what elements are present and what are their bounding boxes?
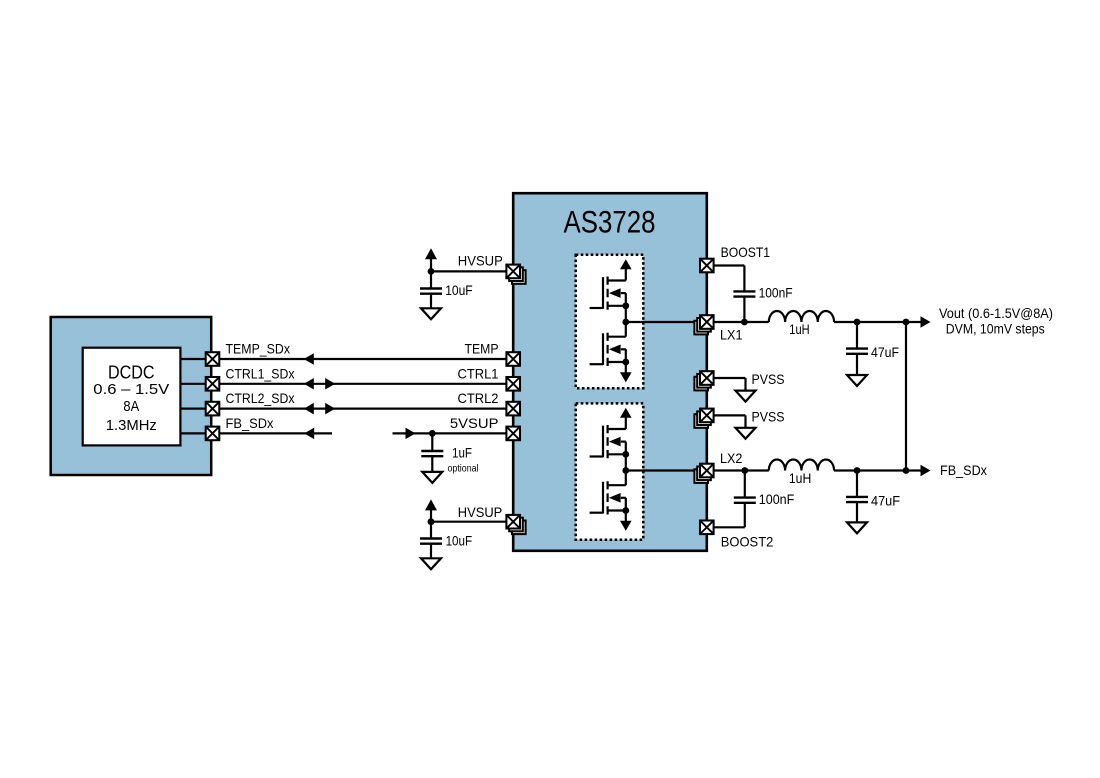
svg-text:BOOST1: BOOST1 bbox=[721, 244, 771, 260]
svg-text:TEMP: TEMP bbox=[465, 341, 499, 357]
svg-text:100nF: 100nF bbox=[759, 284, 793, 300]
svg-text:10uF: 10uF bbox=[446, 533, 473, 549]
svg-text:1.3MHz: 1.3MHz bbox=[106, 417, 157, 434]
svg-text:1uH: 1uH bbox=[789, 470, 811, 486]
svg-text:CTRL1_SDx: CTRL1_SDx bbox=[226, 365, 295, 381]
svg-text:8A: 8A bbox=[123, 398, 139, 415]
svg-text:1uF: 1uF bbox=[452, 445, 472, 461]
svg-text:TEMP_SDx: TEMP_SDx bbox=[226, 341, 291, 357]
svg-text:CTRL2_SDx: CTRL2_SDx bbox=[226, 390, 295, 406]
svg-text:10uF: 10uF bbox=[445, 282, 473, 298]
svg-text:1uH: 1uH bbox=[789, 321, 809, 337]
svg-text:LX1: LX1 bbox=[720, 326, 743, 342]
svg-text:AS3728: AS3728 bbox=[564, 204, 656, 240]
svg-text:PVSS: PVSS bbox=[752, 408, 785, 424]
svg-text:optional: optional bbox=[448, 462, 479, 474]
svg-text:HVSUP: HVSUP bbox=[458, 252, 503, 268]
svg-text:FB_SDx: FB_SDx bbox=[226, 415, 274, 431]
svg-text:DVM, 10mV steps: DVM, 10mV steps bbox=[946, 320, 1045, 336]
svg-text:DCDC: DCDC bbox=[108, 361, 155, 382]
svg-text:CTRL1: CTRL1 bbox=[458, 365, 499, 381]
svg-text:BOOST2: BOOST2 bbox=[721, 534, 774, 550]
svg-text:47uF: 47uF bbox=[871, 493, 900, 509]
svg-text:LX2: LX2 bbox=[720, 450, 743, 466]
svg-text:100nF: 100nF bbox=[759, 491, 795, 507]
svg-text:0.6 – 1.5V: 0.6 – 1.5V bbox=[93, 381, 169, 398]
svg-text:5VSUP: 5VSUP bbox=[450, 415, 499, 431]
svg-text:47uF: 47uF bbox=[871, 344, 899, 360]
svg-text:Vout (0.6-1.5V@8A): Vout (0.6-1.5V@8A) bbox=[939, 305, 1053, 321]
svg-text:PVSS: PVSS bbox=[752, 371, 785, 387]
svg-text:CTRL2: CTRL2 bbox=[458, 390, 499, 406]
svg-text:FB_SDx: FB_SDx bbox=[940, 462, 987, 478]
svg-text:HVSUP: HVSUP bbox=[458, 504, 503, 520]
